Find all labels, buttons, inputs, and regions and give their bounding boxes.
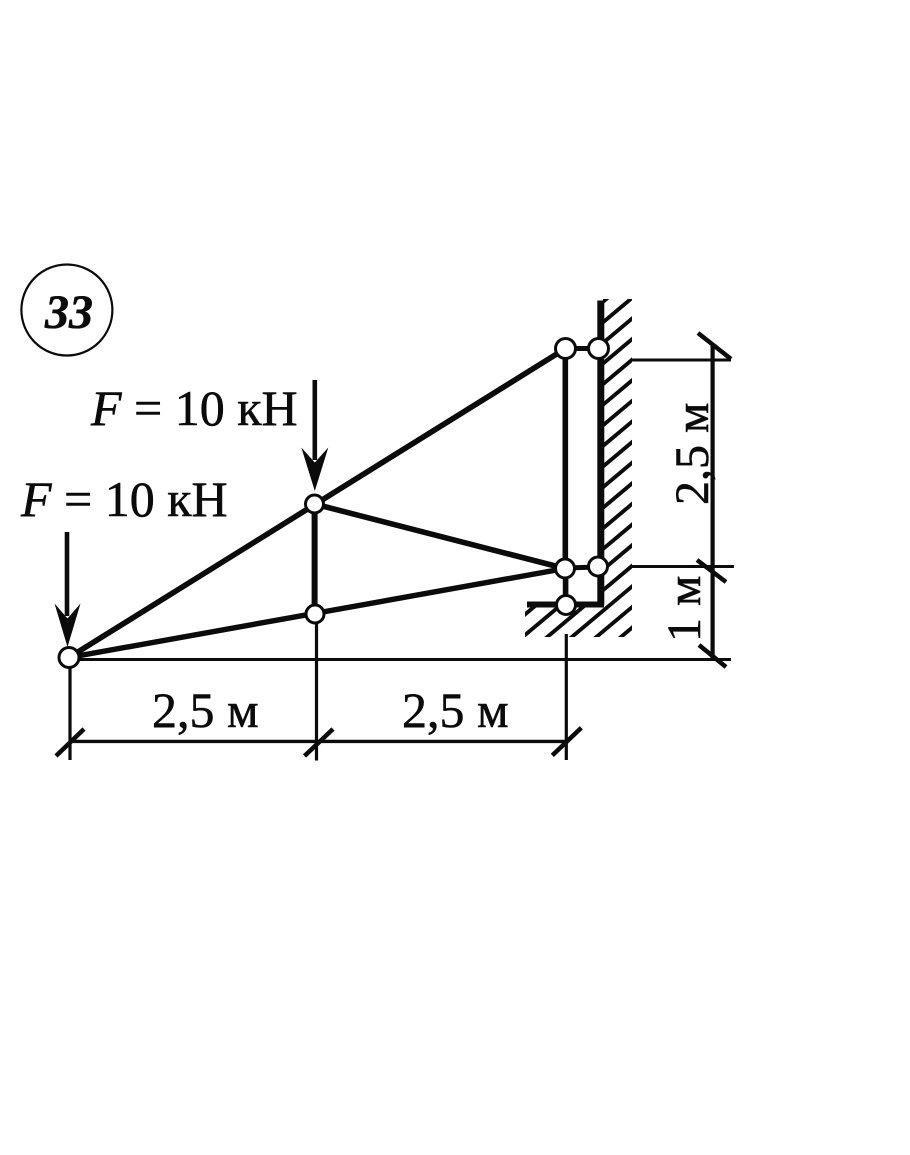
node H (floor pin) (557, 596, 576, 615)
svg-text:F = 10 кН: F = 10 кН (20, 471, 228, 527)
extension line below A (68, 668, 71, 760)
tick mid (right dim) (697, 560, 726, 582)
svg-text:2,5 м: 2,5 м (666, 403, 719, 505)
member F-H (vertical short) (563, 569, 569, 606)
extension line mid right (level of F) (630, 565, 734, 568)
svg-text:1 м: 1 м (658, 576, 711, 642)
floor support line (527, 602, 604, 608)
node B (306, 605, 324, 623)
svg-text:2,5 м: 2,5 м (402, 682, 509, 738)
label F = 10 kN (upper force) (90, 380, 298, 436)
member A-F (bottom chord through B) (69, 569, 565, 658)
bottom dimension line (70, 740, 567, 743)
member C-B (vertical) (312, 504, 318, 614)
tick mid (bottom dim) (305, 729, 334, 756)
link bar D-E (566, 346, 599, 351)
force arrow F1 (lower, onto node A) (55, 532, 81, 647)
member C-F (diagonal) (315, 504, 566, 569)
member A-D (top chord through C) (69, 349, 566, 658)
tick bottom (right dim) (699, 645, 726, 667)
node F (556, 559, 575, 578)
wall and floor hatching (495, 209, 640, 763)
link bar F-G (565, 567, 598, 568)
node E (wall pin) (589, 339, 609, 359)
problem number circle 33 (21, 265, 112, 356)
member D-F (vertical) (562, 349, 568, 569)
svg-text:33: 33 (44, 286, 93, 339)
svg-text:2,5 м: 2,5 м (152, 682, 259, 738)
extension line from A to right (reference for 1 m) (76, 658, 731, 661)
label F = 10 kN (lower force) (20, 471, 228, 527)
tick top (right dim) (698, 333, 731, 359)
wall edge line (597, 301, 604, 606)
extension line below H (565, 634, 568, 760)
force arrow F2 (upper, onto node C) (301, 380, 328, 491)
tick right (bottom dim) (552, 728, 581, 756)
extension line below B (315, 624, 318, 761)
svg-text:F = 10 кН: F = 10 кН (90, 380, 298, 436)
extension line top right (level of D) (632, 359, 732, 362)
node A (59, 648, 79, 668)
tick left (bottom dim) (56, 729, 84, 756)
vertical dimension line right (710, 346, 714, 659)
node C (306, 495, 324, 513)
node D (556, 339, 576, 359)
node G (wall pin) (589, 557, 608, 576)
